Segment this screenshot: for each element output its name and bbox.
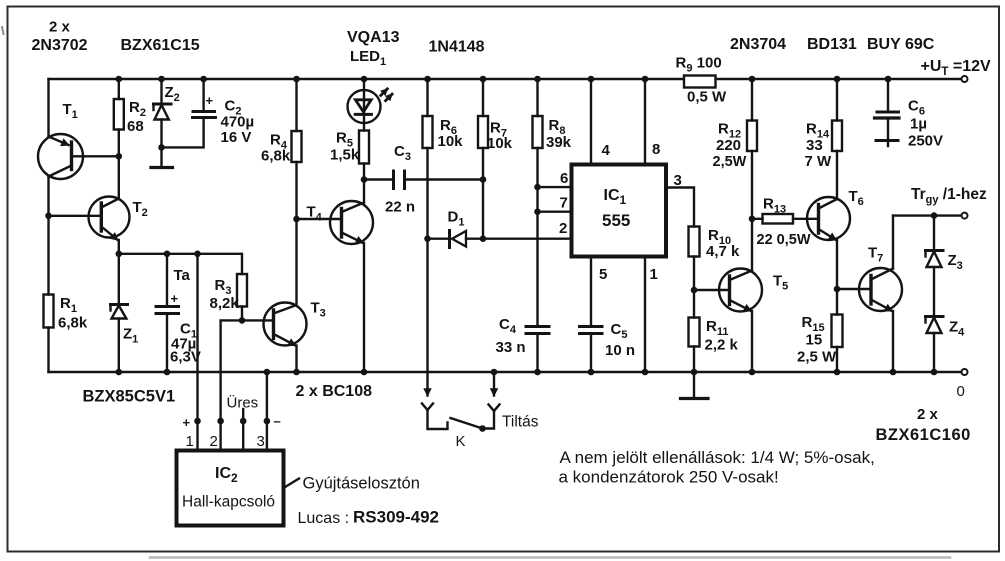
wire pin 8 — [644, 79, 646, 165]
wire T6 emitter to T7 base — [837, 288, 871, 290]
node R11 at rail — [691, 369, 698, 376]
svg-text:BD131: BD131 — [807, 36, 857, 53]
wire Trgy terminal — [893, 214, 962, 216]
resistor R3 — [237, 274, 247, 320]
wire pin 6 — [538, 186, 572, 188]
svg-text:39k: 39k — [546, 134, 572, 151]
svg-text:Z2: Z2 — [165, 84, 180, 104]
svg-text:C3: C3 — [394, 143, 411, 163]
svg-text:4,7 k: 4,7 k — [706, 243, 740, 260]
svg-text:Hall-kapcsoló: Hall-kapcsoló — [182, 494, 275, 511]
0V bottom rail — [49, 371, 963, 373]
svg-text:T2: T2 — [133, 199, 148, 219]
svg-text:R11: R11 — [706, 318, 728, 338]
node C1 top — [164, 251, 171, 258]
resistor R12 — [747, 79, 757, 219]
svg-text:Z1: Z1 — [123, 326, 138, 346]
dots on top rail — [116, 76, 892, 83]
svg-text:3: 3 — [674, 172, 682, 189]
zener Z4 — [926, 317, 944, 373]
svg-text:4: 4 — [602, 142, 611, 159]
+12V top rail — [49, 78, 963, 80]
node C3 right — [480, 176, 487, 183]
callout line Gyújtáselosztón — [284, 479, 300, 489]
terminal +12V — [962, 76, 968, 82]
svg-text:+: + — [206, 93, 214, 108]
resistor R7 — [478, 79, 488, 180]
svg-text:R1: R1 — [60, 295, 77, 315]
node R7 bottom — [480, 235, 487, 242]
ground under Z2 — [151, 166, 173, 169]
svg-text:6,8k: 6,8k — [261, 148, 291, 165]
svg-text:C4: C4 — [499, 316, 517, 336]
capacitor C4 — [526, 327, 549, 373]
svg-text:Z3: Z3 — [948, 252, 963, 272]
node pin1 at rail — [642, 369, 649, 376]
diode D1 — [428, 231, 572, 248]
resistor R10 — [689, 227, 700, 291]
svg-text:T7: T7 — [868, 245, 883, 265]
svg-text:T6: T6 — [849, 188, 864, 208]
resistor R14 — [832, 79, 842, 151]
node R15 at rail — [834, 369, 841, 376]
svg-text:220: 220 — [716, 137, 741, 154]
svg-text:C6: C6 — [908, 98, 925, 118]
wire R3 junction to IC2 pin2 — [221, 320, 242, 450]
svg-text:2 x BC108: 2 x BC108 — [296, 383, 373, 400]
op-amp timer IC1 555 box — [572, 165, 667, 257]
svg-text:T4: T4 — [307, 204, 323, 224]
node R10-R11-T5 base — [691, 287, 698, 294]
svg-text:33 n: 33 n — [496, 339, 526, 356]
svg-text:555: 555 — [602, 211, 630, 230]
transistor T7 — [859, 216, 902, 372]
svg-text:10k: 10k — [438, 133, 464, 150]
svg-text:250V: 250V — [908, 133, 943, 150]
svg-text:470µ: 470µ — [221, 114, 255, 131]
terminal 0V — [962, 369, 968, 375]
svg-text:33: 33 — [806, 137, 823, 154]
svg-text:a kondenzátorok 250 V-osak!: a kondenzátorok 250 V-osak! — [559, 468, 779, 487]
node pin7 junction — [534, 208, 541, 215]
svg-text:BZX61C160: BZX61C160 — [876, 426, 971, 444]
svg-text:10 n: 10 n — [605, 342, 635, 359]
node R12-R13 junction — [749, 216, 756, 223]
svg-text:Trgy /1-hez: Trgy /1-hez — [911, 186, 987, 206]
svg-text:VQA13: VQA13 — [347, 29, 400, 46]
node R5 bottom / C3 left — [361, 176, 368, 183]
transistor T4 — [297, 180, 374, 373]
svg-text:0,5 W: 0,5 W — [687, 89, 727, 106]
svg-text:2N3702: 2N3702 — [32, 37, 88, 54]
resistor R1 — [44, 295, 54, 328]
svg-text:0: 0 — [957, 383, 965, 400]
node IC2 pin dots — [194, 418, 270, 425]
transistor T6 — [807, 151, 850, 289]
resistor R11 — [689, 290, 700, 372]
svg-text:22 n: 22 n — [385, 199, 415, 216]
svg-text:R13: R13 — [763, 196, 786, 216]
svg-text:7 W: 7 W — [805, 153, 833, 170]
node T5 emitter at rail — [749, 369, 756, 376]
svg-text:5: 5 — [599, 266, 607, 283]
dots on bottom rail — [116, 369, 271, 376]
node T7 emitter at rail — [890, 369, 897, 376]
node R2-T1-T2 junction — [116, 153, 123, 160]
node T6 emitter junction — [834, 286, 841, 293]
svg-text:–: – — [274, 414, 281, 429]
capacitor C6 — [875, 79, 900, 146]
svg-text:2 x: 2 x — [917, 406, 939, 423]
svg-text:22 0,5W: 22 0,5W — [757, 232, 811, 248]
wire pin 3 — [666, 188, 694, 227]
svg-text:8: 8 — [652, 141, 660, 158]
svg-text:BUY 69C: BUY 69C — [867, 36, 935, 53]
transistor T5 — [694, 219, 762, 372]
node T4 base junction — [293, 216, 300, 223]
svg-text:2,5W: 2,5W — [713, 154, 747, 170]
svg-text:2 x: 2 x — [49, 19, 71, 36]
wire T2 emitter to R3 — [119, 254, 242, 274]
svg-text:R2: R2 — [129, 99, 146, 119]
svg-text:8,2k: 8,2k — [210, 295, 240, 312]
svg-text:Tiltás: Tiltás — [502, 414, 539, 431]
LED1 with R5 branch — [348, 79, 393, 123]
svg-text:1: 1 — [650, 266, 658, 283]
node Z4 at rail — [931, 369, 938, 376]
node Z2-C2 junction — [158, 144, 165, 151]
svg-text:Lucas :: Lucas : — [298, 510, 350, 527]
transistor T2 — [49, 156, 130, 254]
svg-text:Üres: Üres — [227, 394, 259, 412]
svg-text:Z4: Z4 — [949, 319, 965, 339]
wire pin 4 — [590, 79, 592, 165]
svg-text:BZX85C5V1: BZX85C5V1 — [83, 388, 176, 406]
zener Z1 — [111, 254, 128, 372]
svg-text:+UT =12V: +UT =12V — [921, 58, 992, 78]
svg-text:Ta: Ta — [174, 267, 191, 284]
svg-text:2,5 W: 2,5 W — [797, 349, 837, 366]
svg-text:R3: R3 — [215, 277, 232, 297]
node pin1 wire top — [194, 251, 201, 258]
node T3 emitter at rail — [293, 369, 300, 376]
node pin6 junction — [534, 184, 541, 191]
zener Z3 — [926, 216, 944, 317]
node Tiltás line at rail — [491, 369, 498, 376]
wire pin 7 — [538, 210, 572, 212]
terminal Trgy — [962, 213, 968, 219]
svg-text:1µ: 1µ — [910, 116, 927, 133]
svg-text:R9 100: R9 100 — [676, 55, 722, 75]
svg-text:2: 2 — [559, 220, 567, 237]
svg-text:1,5k: 1,5k — [330, 147, 360, 164]
svg-text:1N4148: 1N4148 — [429, 39, 485, 56]
ground — [681, 372, 709, 399]
svg-text:C5: C5 — [611, 321, 628, 341]
node C5 at rail — [588, 369, 595, 376]
wire switch to Tiltás line — [483, 405, 500, 429]
node C4 at rail — [534, 369, 541, 376]
node T4 emitter at rail — [361, 369, 368, 376]
resistor R13 — [752, 214, 819, 224]
transistor T3 — [242, 219, 307, 372]
svg-text:T5: T5 — [773, 273, 788, 293]
svg-text:2,2 k: 2,2 k — [705, 337, 739, 354]
resistor R15 — [832, 289, 843, 372]
wire left vertical — [47, 79, 49, 372]
resistor R6 — [423, 79, 433, 239]
svg-text:16 V: 16 V — [221, 129, 252, 146]
svg-text:10k: 10k — [487, 135, 513, 152]
zener Z2 — [154, 79, 172, 168]
resistor R8 — [533, 79, 543, 326]
svg-text:T3: T3 — [311, 300, 326, 320]
wire R7 to D1 wire — [482, 180, 484, 239]
IC2 Hall-kapcsoló box — [177, 451, 284, 526]
svg-text:T1: T1 — [63, 101, 78, 121]
node T2 emitter junction — [116, 251, 123, 258]
svg-text:15: 15 — [806, 332, 823, 349]
svg-text:Gyújtáselosztón: Gyújtáselosztón — [303, 475, 420, 493]
svg-text:K: K — [456, 433, 466, 450]
svg-text:6,3V: 6,3V — [170, 349, 201, 366]
svg-text:A nem jelölt ellenállások: 1/4: A nem jelölt ellenállások: 1/4 W; 5%-osa… — [560, 448, 875, 467]
capacitor C1 — [156, 254, 179, 372]
svg-text:BZX61C15: BZX61C15 — [121, 37, 200, 54]
svg-text:3: 3 — [257, 433, 265, 450]
svg-text:D1: D1 — [448, 209, 465, 229]
svg-text:+: + — [183, 415, 191, 430]
capacitor C3 — [364, 171, 483, 189]
wire R6 line down to switch K — [426, 239, 428, 396]
svg-text:7: 7 — [560, 195, 568, 212]
svg-text:68: 68 — [127, 118, 144, 135]
IC2 hall switch wires — [243, 372, 267, 451]
svg-text:2N3704: 2N3704 — [730, 36, 786, 53]
node R3 bottom junction — [239, 317, 246, 324]
svg-text:RS309-492: RS309-492 — [353, 508, 439, 527]
node D1 anode junction — [424, 235, 431, 242]
wire to IC2 pin1 — [196, 254, 198, 451]
svg-text:6: 6 — [560, 170, 568, 187]
resistor R5 — [359, 123, 369, 180]
svg-text:2: 2 — [210, 433, 218, 450]
node Trgy junction — [931, 212, 938, 219]
resistor R2 — [114, 79, 124, 156]
svg-text:LED1: LED1 — [350, 48, 386, 68]
switch K blade — [451, 418, 483, 429]
wire pin 5 with capacitor C5 — [590, 257, 592, 327]
resistor R9 — [684, 76, 716, 88]
capacitor C2 — [162, 79, 216, 147]
node T2 base — [45, 213, 52, 220]
resistor R4 — [292, 79, 302, 219]
transistor T1 — [38, 134, 119, 179]
wire pin 1 — [644, 257, 646, 373]
svg-text:+: + — [171, 291, 179, 306]
svg-text:6,8k: 6,8k — [58, 315, 88, 332]
svg-text:1: 1 — [186, 433, 194, 450]
